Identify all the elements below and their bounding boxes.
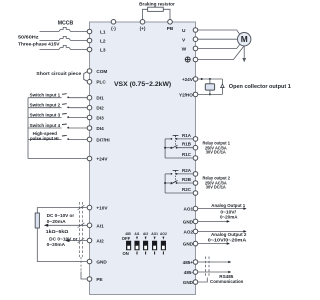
wire AI1 wiper with arrow	[44, 224, 88, 227]
svg-text:0~20mA: 0~20mA	[47, 242, 66, 247]
wire +24V to open collector loop	[198, 78, 223, 80]
DIP bottom tick marks	[137, 252, 163, 255]
svg-text:50/60Hz: 50/60Hz	[18, 35, 39, 41]
svg-text:DC 0~10V or: DC 0~10V or	[49, 236, 78, 241]
terminal L2	[87, 38, 92, 43]
wire 485+	[198, 261, 232, 263]
svg-text:+24V: +24V	[96, 157, 108, 162]
svg-text:AO1: AO1	[184, 207, 194, 212]
wire shield drain to PE	[81, 257, 87, 279]
wire R1C branch	[165, 157, 193, 159]
resistor braking	[148, 7, 164, 11]
breaker MCCB pole 2	[59, 36, 71, 40]
wire AO2 output with arrow	[198, 230, 247, 233]
terminal R1B	[193, 145, 198, 150]
svg-text:R1B: R1B	[182, 142, 192, 147]
wire R1A branch	[165, 138, 171, 140]
terminal AO2	[193, 229, 198, 234]
svg-text:Switch input 4: Switch input 4	[30, 123, 61, 128]
switch S3	[62, 114, 69, 119]
svg-text:Open collector output 1: Open collector output 1	[229, 84, 291, 90]
svg-text:+24V: +24V	[182, 77, 194, 82]
terminal GND analog	[87, 259, 92, 264]
terminal DI2	[87, 105, 92, 110]
terminal GND ao1	[193, 219, 198, 224]
wire R1B branch	[165, 147, 171, 149]
terminal (+)	[140, 20, 145, 25]
svg-text:PB: PB	[167, 26, 174, 31]
svg-text:DI1: DI1	[96, 96, 104, 101]
svg-text:PLC: PLC	[96, 80, 106, 85]
svg-text:Switch input 3: Switch input 3	[30, 112, 61, 117]
terminal DI4	[87, 126, 92, 131]
relay contact K1 NO	[171, 135, 179, 139]
junction dot c	[209, 93, 211, 95]
terminal +10V	[87, 205, 92, 210]
svg-text:AI1: AI1	[96, 223, 104, 228]
wire GND ao1 with arrow	[198, 220, 230, 223]
svg-text:R2A: R2A	[182, 168, 192, 173]
svg-text:Three-phase 415V: Three-phase 415V	[18, 41, 60, 47]
DIP switch SW1 485	[126, 241, 131, 250]
svg-text:Y2/HO: Y2/HO	[179, 92, 193, 97]
svg-text:PE: PE	[96, 277, 102, 282]
mechanical link relay 1 dashed	[175, 138, 177, 146]
wire R2A branch	[165, 173, 171, 175]
switch S5	[62, 135, 69, 140]
svg-text:Switch input 2: Switch input 2	[30, 103, 61, 108]
relay contact K2 NO	[171, 170, 179, 174]
ground symbol PE circle-cross	[185, 57, 190, 62]
svg-text:OFF: OFF	[122, 236, 131, 241]
DIP switch SW5 AO2	[161, 241, 166, 250]
terminal +24V right	[193, 77, 198, 82]
svg-text:AI1: AI1	[134, 232, 139, 236]
svg-text:(+): (+)	[140, 26, 146, 31]
svg-text:0~10V/0~20mA: 0~10V/0~20mA	[208, 238, 247, 243]
wire +24V return	[28, 158, 87, 160]
svg-text:AI2: AI2	[143, 232, 148, 236]
wire 485-	[198, 271, 232, 273]
switch S4	[62, 124, 69, 129]
terminal DI3	[87, 115, 92, 120]
wire GND ao2 with arrow	[198, 242, 230, 245]
wire switch input 2	[28, 107, 62, 109]
DIP switch SW3 AI2	[143, 241, 148, 250]
svg-text:L3: L3	[100, 48, 106, 54]
DIP switch SW4 AO1	[152, 241, 157, 250]
svg-text:VSX (0.75~2.2kW): VSX (0.75~2.2kW)	[114, 81, 171, 88]
wire load branch vertical	[209, 79, 211, 84]
wire switch input 4	[28, 127, 62, 129]
relay 1 common bus	[164, 139, 166, 158]
svg-text:DI4: DI4	[96, 126, 104, 131]
svg-text:DC 0~10V or: DC 0~10V or	[47, 213, 75, 218]
svg-text:MCCB: MCCB	[58, 21, 74, 27]
wire earth terminal to motor frame	[198, 46, 244, 60]
svg-text:AO1: AO1	[151, 232, 158, 236]
junction dot b	[209, 78, 211, 80]
terminal PE	[87, 277, 92, 282]
twisted pair shield dashes rs485	[206, 257, 209, 277]
svg-text:Analog Output 2: Analog Output 2	[211, 232, 247, 237]
inverter main block U1 VSX	[90, 22, 196, 295]
shield slash marks	[78, 205, 85, 243]
svg-text:AO2: AO2	[184, 229, 194, 234]
wire high-speed pulse input	[28, 138, 62, 140]
wire R2B branch	[165, 182, 171, 184]
wire Y2/HO to loop	[198, 93, 223, 95]
svg-text:485-: 485-	[184, 270, 194, 275]
terminal DI1	[87, 95, 92, 100]
wire load bottom	[209, 90, 211, 94]
svg-text:L2: L2	[100, 39, 106, 45]
svg-text:30V DC/1A: 30V DC/1A	[206, 150, 227, 155]
svg-text:GND: GND	[96, 260, 107, 265]
svg-text:L1: L1	[100, 30, 106, 36]
wire shield drain to GND	[198, 278, 208, 283]
svg-text:DI2: DI2	[96, 106, 104, 111]
terminal AI2	[87, 238, 92, 243]
wire L3 input	[40, 49, 60, 51]
svg-text:GND: GND	[183, 280, 194, 285]
terminal R2C	[193, 191, 198, 196]
svg-text:Communication: Communication	[210, 279, 243, 284]
wire L1 input	[40, 31, 60, 33]
terminal L1	[87, 29, 92, 34]
DIP switch labels top	[125, 232, 167, 236]
wire switch input 3	[28, 117, 62, 119]
svg-text:R1C: R1C	[182, 152, 192, 157]
wire L2 input	[40, 40, 60, 42]
terminal +24V left	[87, 156, 92, 161]
terminal earth	[193, 57, 198, 62]
junction dot a	[201, 78, 203, 80]
svg-text:AI2: AI2	[96, 239, 104, 244]
load box relay coil	[205, 84, 214, 90]
junction dot relay1 bus	[164, 147, 166, 149]
svg-text:Analog Output 1: Analog Output 1	[211, 203, 245, 208]
wire loop right vertical	[221, 79, 223, 94]
switch S2	[62, 104, 69, 109]
terminal 485-	[193, 270, 198, 275]
svg-text:Switch input 1: Switch input 1	[30, 93, 61, 98]
breaker MCCB pole 1	[59, 27, 71, 31]
relay contact K1 NC	[171, 145, 178, 149]
svg-text:30V DC/1A: 30V DC/1A	[206, 185, 227, 190]
svg-text:W: W	[182, 47, 187, 53]
wire potentiometer to GND	[37, 228, 87, 262]
short circuit piece link	[84, 72, 88, 82]
wire AI2 with arrow	[65, 239, 87, 242]
DIP switch SW2 AI1	[135, 241, 140, 250]
terminal GND rs485	[193, 280, 198, 285]
relay contact K2 NC	[171, 181, 178, 185]
wire AO1 output with arrow	[198, 207, 247, 210]
terminal 485+	[193, 260, 198, 265]
terminal W	[193, 46, 198, 51]
wire switch bus vertical	[27, 98, 29, 159]
svg-text:DI3: DI3	[96, 116, 104, 121]
switch S1	[62, 94, 69, 99]
terminal PB	[168, 20, 173, 25]
breaker MCCB pole 3	[59, 45, 71, 49]
svg-text:M: M	[241, 34, 248, 44]
svg-text:COM: COM	[96, 69, 107, 74]
svg-text:pulse input HI: pulse input HI	[30, 136, 59, 141]
svg-text:0~20mA: 0~20mA	[220, 215, 238, 220]
terminal L3	[87, 47, 92, 52]
junction dot relay2 bus	[164, 182, 166, 184]
wire R2C branch	[165, 192, 193, 194]
svg-text:U: U	[182, 28, 186, 34]
terminal GND ao2	[193, 241, 198, 246]
svg-text:0~20mA: 0~20mA	[47, 219, 67, 224]
motor M1	[238, 33, 251, 46]
terminal R1C	[193, 156, 198, 161]
shielded cable dashes analog	[79, 202, 82, 257]
mechanical link relay 2 dashed	[175, 173, 177, 182]
terminal R2B	[193, 181, 198, 186]
svg-text:1kΩ~5kΩ: 1kΩ~5kΩ	[46, 229, 69, 234]
svg-text:DI7/HI: DI7/HI	[96, 137, 109, 142]
svg-text:Short circuit piece: Short circuit piece	[36, 71, 81, 76]
terminal AO1	[193, 206, 198, 211]
terminal V	[193, 37, 198, 42]
wire resistor to PB	[163, 9, 170, 19]
svg-text:+10V: +10V	[96, 206, 108, 211]
ground arrow motor earth	[242, 46, 246, 62]
svg-text:GND: GND	[183, 242, 194, 247]
wire switch input 1	[28, 97, 62, 99]
wire W to motor	[198, 44, 240, 48]
DIP arrows	[136, 237, 164, 240]
svg-text:GND: GND	[183, 219, 194, 224]
svg-text:Braking resistor: Braking resistor	[139, 2, 175, 8]
wire +10V to potentiometer	[37, 208, 87, 213]
svg-text:485+: 485+	[183, 260, 194, 265]
svg-text:AO2: AO2	[160, 232, 167, 236]
terminal AI1	[87, 223, 92, 228]
symbol open collector triangle	[221, 84, 225, 88]
terminal DI7/HI	[87, 137, 92, 142]
terminal U	[193, 28, 198, 33]
terminal R1A	[193, 137, 198, 142]
wire braking resistor (+) to resistor	[143, 9, 148, 19]
terminal COM	[87, 69, 92, 74]
wire U to motor	[198, 30, 240, 34]
svg-text:R2C: R2C	[182, 187, 192, 192]
terminal Y2/HO	[193, 92, 198, 97]
svg-text:ON: ON	[123, 251, 129, 256]
terminal (-)	[111, 20, 116, 25]
wire V to motor	[198, 38, 238, 40]
terminal PLC	[87, 80, 92, 85]
relay 2 common bus	[164, 174, 166, 193]
svg-text:R1A: R1A	[182, 133, 192, 138]
potentiometer RP1	[35, 213, 39, 228]
svg-text:(-): (-)	[111, 26, 116, 31]
svg-text:R2B: R2B	[182, 177, 192, 182]
terminal R2A	[193, 172, 198, 177]
